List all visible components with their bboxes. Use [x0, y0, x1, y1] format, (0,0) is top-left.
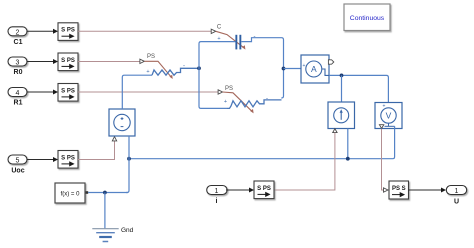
PS-Simulink converter U_out: [389, 181, 409, 199]
wire solver to node: [88, 192, 128, 194]
controlled voltage source U1: [109, 109, 135, 136]
wire inport5 to converter: [27, 157, 58, 162]
svg-text:S PS: S PS: [257, 186, 271, 192]
svg-text:5: 5: [16, 158, 20, 165]
svg-text:V: V: [386, 111, 392, 121]
svg-text:+: +: [303, 63, 306, 69]
wire voltage source minus down to solver line: [126, 136, 129, 193]
controlled current source I1: [328, 102, 355, 129]
inport 1 (i): [207, 186, 227, 196]
svg-text:R0: R0: [14, 69, 23, 76]
svg-text:S PS: S PS: [61, 155, 75, 161]
wire V sensor minus to return bus: [129, 126, 395, 158]
wire inport2 to converter: [27, 29, 58, 34]
node current source on bus: [346, 157, 350, 161]
wire node down to current source: [341, 75, 343, 102]
svg-text:+: +: [383, 104, 386, 110]
svg-text:-: -: [183, 64, 185, 70]
outport 1 (U): [446, 186, 466, 196]
svg-text:S PS: S PS: [61, 58, 75, 64]
PS wire R1 signal: [78, 91, 218, 93]
svg-text:-: -: [266, 96, 268, 102]
wire voltage source plus up to resistor R0: [122, 75, 152, 109]
PS wire R0 signal: [78, 61, 140, 63]
svg-text:+: +: [224, 99, 227, 105]
svg-text:+: +: [146, 69, 149, 75]
current sensor A: [301, 55, 329, 83]
inport 5 (Uoc): [8, 155, 27, 165]
wire to ground: [104, 193, 106, 229]
svg-text:1: 1: [455, 188, 459, 195]
svg-text:A: A: [311, 64, 317, 74]
svg-text:i: i: [216, 198, 218, 205]
resistor R1 (variable): [224, 96, 282, 108]
Simulink-PS converter U_R1: [58, 84, 78, 102]
node solver junction: [103, 191, 107, 195]
PS wire C1 signal: [78, 30, 211, 32]
inport 3 (R0): [8, 57, 27, 67]
Continuous powergui block: [344, 4, 390, 31]
wire converter to outport: [409, 188, 447, 193]
svg-text:Continuous: Continuous: [350, 15, 385, 22]
wire node to ammeter: [284, 68, 307, 70]
port arrow into voltage source: [112, 137, 116, 141]
wire inport1 to converter: [226, 188, 254, 193]
svg-text:U: U: [454, 199, 459, 206]
svg-text:R1: R1: [14, 100, 23, 107]
voltage sensor V: [375, 103, 402, 129]
Simulink-PS converter U_Uoc: [58, 151, 78, 169]
variable resistor R1 control arrow: [223, 92, 254, 113]
wire inport3 to converter: [27, 59, 58, 64]
svg-text:1: 1: [215, 188, 219, 195]
ground: [92, 229, 118, 242]
variable resistor R0 control arrow: [144, 61, 172, 79]
PS output flag of ammeter: [328, 60, 333, 64]
svg-text:C1: C1: [14, 39, 23, 46]
port arrow PS of resistor R1: [218, 90, 223, 94]
solver block f(x)=0: [55, 183, 88, 203]
svg-text:2: 2: [16, 29, 20, 36]
wire current source bottom to bus: [347, 129, 349, 159]
PS wire voltage sensor to converter: [382, 129, 384, 190]
svg-text:3: 3: [16, 60, 20, 67]
wire capacitor right to bus: [241, 38, 283, 98]
svg-text:PS: PS: [147, 54, 155, 60]
node voltage source minus on bus: [127, 157, 131, 161]
svg-text:PS: PS: [225, 86, 233, 92]
port arrow C of variable capacitor: [211, 29, 216, 33]
variable capacitor control arrow: [216, 31, 246, 49]
inport 2 (C1): [8, 27, 27, 37]
port arrow PS of resistor R0: [140, 59, 145, 63]
resistor R0 (variable): [146, 64, 199, 76]
svg-text:4: 4: [16, 90, 20, 97]
svg-text:C: C: [217, 25, 222, 31]
node ammeter out: [340, 74, 344, 78]
wire left bus (cap top / R1 bottom): [199, 42, 235, 109]
svg-text:S PS: S PS: [61, 88, 75, 94]
capacitor C1 plates: [217, 35, 241, 50]
PS wire Uoc signal: [78, 141, 115, 160]
Simulink-PS converter U_i: [254, 181, 274, 199]
svg-text:S PS: S PS: [61, 28, 75, 34]
PS wire current source control: [274, 133, 335, 190]
inport 4 (R1): [8, 88, 27, 98]
port arrow into PS-S converter: [384, 188, 389, 192]
Simulink-PS converter U_R0: [58, 53, 78, 71]
svg-text:PS S: PS S: [392, 186, 406, 192]
Simulink-PS converter U_C1: [58, 23, 78, 41]
svg-text:-: -: [254, 34, 256, 40]
svg-text:Uoc: Uoc: [11, 167, 24, 174]
wire inport4 to converter: [27, 90, 58, 95]
svg-text:Gnd: Gnd: [121, 227, 134, 234]
PS input arrow of current source: [333, 129, 337, 133]
PS output arrow of voltage sensor: [379, 125, 383, 129]
svg-text:+: +: [217, 36, 220, 42]
node R0 output: [197, 66, 201, 70]
svg-text:f(x) = 0: f(x) = 0: [61, 191, 81, 197]
wire ammeter out to V sensor top: [329, 75, 388, 102]
node capacitor/R1 to ammeter: [282, 67, 286, 71]
